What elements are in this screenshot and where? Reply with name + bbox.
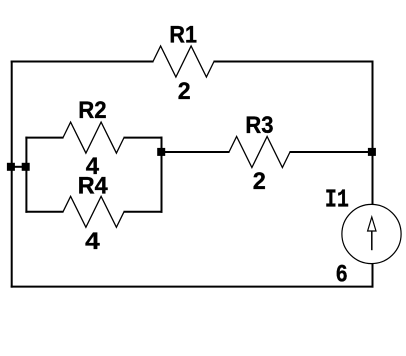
current source I1 circle bbox=[342, 204, 401, 263]
svg-text:I1: I1 bbox=[325, 185, 349, 215]
wire: outer loop right edge upper bbox=[372, 61, 374, 205]
wire: outer loop top-left segment bbox=[11, 61, 154, 63]
svg-text:R3: R3 bbox=[245, 112, 273, 139]
svg-text:2: 2 bbox=[178, 78, 191, 105]
wire: outer loop left edge bbox=[11, 61, 13, 288]
svg-text:6: 6 bbox=[336, 261, 347, 288]
wire: box top branch left of R2 bbox=[25, 137, 63, 139]
svg-text:4: 4 bbox=[85, 228, 100, 255]
current source I1 arrow head bbox=[368, 217, 376, 231]
svg-text:R4: R4 bbox=[78, 173, 108, 200]
wire: node stub from left edge to parallel box bbox=[11, 166, 27, 168]
svg-text:R1: R1 bbox=[169, 22, 197, 49]
resistor R2 bbox=[63, 122, 124, 153]
wire: parallel box right edge bbox=[161, 137, 163, 213]
resistor R4 bbox=[63, 196, 124, 227]
wire: middle wire from R3 to right edge bbox=[290, 151, 374, 153]
svg-text:2: 2 bbox=[253, 168, 266, 195]
resistor R3 bbox=[229, 137, 290, 168]
node: junction on parallel box left edge bbox=[22, 163, 30, 171]
wire: box top branch right of R2 bbox=[124, 137, 163, 139]
wire: middle wire from box to R3 bbox=[161, 151, 230, 153]
wire: outer loop right edge lower bbox=[372, 263, 374, 287]
current source I1 arrow shaft bbox=[371, 231, 373, 250]
node: junction on outer left edge bbox=[7, 163, 15, 171]
wire: outer loop top-right segment bbox=[214, 61, 374, 63]
wire: outer loop bottom edge bbox=[11, 286, 374, 288]
wire: parallel box left edge bbox=[25, 137, 27, 213]
wire: box bottom branch left of R4 bbox=[25, 211, 63, 213]
wire: box bottom branch right of R4 bbox=[124, 211, 163, 213]
svg-text:R2: R2 bbox=[78, 97, 106, 124]
node: junction on parallel box right edge bbox=[157, 148, 165, 156]
node: junction on outer right edge bbox=[368, 148, 376, 156]
resistor R1 bbox=[153, 46, 214, 77]
